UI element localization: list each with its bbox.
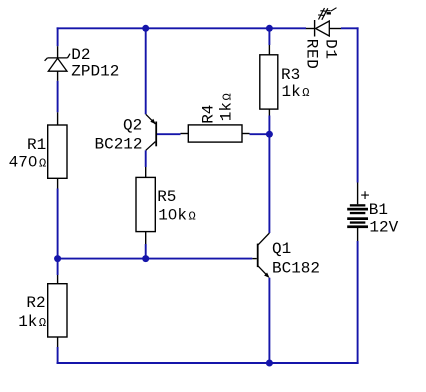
svg-text:BC182: BC182 xyxy=(272,260,320,278)
svg-text:B1: B1 xyxy=(369,201,388,219)
label D2 xyxy=(71,46,90,64)
svg-text:1kΩ: 1kΩ xyxy=(218,93,236,121)
svg-text:R4: R4 xyxy=(200,105,218,124)
svg-text:RED: RED xyxy=(302,39,320,70)
junction node R4/R3/Q1-collector xyxy=(266,131,273,138)
svg-text:1kΩ: 1kΩ xyxy=(282,83,310,101)
label R4 (rotated) xyxy=(200,105,218,124)
svg-text:470Ω: 470Ω xyxy=(9,154,47,172)
LED light arrows xyxy=(318,8,337,20)
value BC182 xyxy=(272,260,320,278)
junction node R5 / base row xyxy=(142,255,149,262)
resistor R5 xyxy=(136,167,155,244)
junction node top-right (R3/LED node) xyxy=(266,25,273,32)
label B1 xyxy=(369,201,388,219)
svg-text:10kΩ: 10kΩ xyxy=(158,207,196,225)
svg-text:ZPD12: ZPD12 xyxy=(71,63,119,81)
svg-text:D1: D1 xyxy=(321,39,339,60)
svg-text:R2: R2 xyxy=(26,294,45,312)
wire mid vertical (zener node to Q2 emitter, Q2 collector to R5, R5 to base row) xyxy=(145,27,147,258)
wire Q2 base row xyxy=(157,133,269,135)
label Q2 xyxy=(123,116,142,134)
label R2 xyxy=(26,294,45,312)
value RED (rotated) xyxy=(302,39,320,70)
svg-text:D2: D2 xyxy=(71,46,90,64)
value ZPD12 xyxy=(71,63,119,81)
svg-text:Q1: Q1 xyxy=(272,240,291,258)
battery B1 xyxy=(347,183,368,242)
label R5 xyxy=(157,188,176,206)
wire Q1 base row xyxy=(58,258,253,260)
svg-text:R3: R3 xyxy=(281,66,300,84)
wire bottom rail xyxy=(57,362,359,364)
resistor R4 xyxy=(181,125,250,142)
svg-text:1kΩ: 1kΩ xyxy=(18,313,46,331)
wire R3 column xyxy=(268,27,270,233)
svg-text:BC212: BC212 xyxy=(94,136,142,154)
svg-text:R1: R1 xyxy=(27,136,46,154)
value 10kohm xyxy=(158,207,196,225)
label R1 xyxy=(27,136,46,154)
value 1kohm (R3) xyxy=(282,83,310,101)
wire Q1 emitter to bottom rail xyxy=(268,278,270,364)
label D1 (rotated) xyxy=(321,39,339,60)
svg-text:R5: R5 xyxy=(157,188,176,206)
label Q1 xyxy=(272,240,291,258)
LED D1 xyxy=(306,20,341,37)
svg-text:12V: 12V xyxy=(369,219,398,237)
value 1kohm (R4, rotated) xyxy=(218,93,236,121)
label R3 xyxy=(281,66,300,84)
wire left rail xyxy=(57,27,59,364)
resistor R2 xyxy=(48,275,67,347)
resistor R1 xyxy=(48,112,67,188)
plus sign xyxy=(360,188,370,206)
resistor R3 xyxy=(260,45,278,116)
wire right rail xyxy=(357,27,359,364)
junction node top-left (zener node) xyxy=(142,25,149,32)
junction node left rail / base row xyxy=(54,255,61,262)
value 470ohm xyxy=(9,154,47,172)
value 12V xyxy=(369,219,398,237)
transistor Q2 (PNP) xyxy=(146,114,156,150)
wire top rail right segment xyxy=(341,27,359,29)
transistor Q1 (NPN) xyxy=(252,233,269,278)
wire top rail left segment xyxy=(57,27,306,29)
svg-text:Q2: Q2 xyxy=(123,116,142,134)
value 1kohm (R2) xyxy=(18,313,46,331)
value BC212 xyxy=(94,136,142,154)
junction node bottom rail / Q1 emitter xyxy=(266,360,273,367)
zener diode D2 xyxy=(45,46,70,81)
